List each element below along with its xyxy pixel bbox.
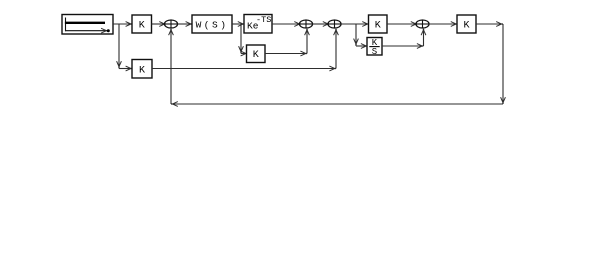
wire K/S to sum S4 [382,29,426,49]
node branch to K2 [117,24,132,71]
svg-text:K: K [139,21,145,32]
transfer function W(S) [192,15,232,33]
summing junction S1 [164,20,177,36]
wire S1 to W(S) [178,22,192,27]
wire W(S) to Ke-TS [232,22,244,27]
gain K5 [247,45,266,63]
wire K2 to sum S3 [152,29,336,71]
integrator K/S [367,38,382,58]
summing junction S4 [416,20,429,29]
delay block Ke^-TS [244,15,272,34]
main feedback wire [171,29,503,107]
svg-text:K: K [463,21,469,32]
wire source to K1 [113,22,132,27]
svg-text:K: K [253,50,259,61]
gain K2 [132,60,152,79]
summing junction S3 [328,20,341,36]
gain K4 [457,15,476,33]
node branch to K/S [354,24,368,48]
wire S3 to K3 [341,22,368,27]
wire K5 to sum S2 [265,29,307,56]
gain K3 [369,15,388,33]
wire K3 to sum S4 [387,22,417,27]
summing junction S2 [299,20,312,36]
svg-text:W(S): W(S) [196,20,229,31]
output wire down [476,22,505,104]
node branch to K5 [239,24,247,56]
source block (step input) [62,15,113,35]
wire S2 to sum S3 [313,22,330,27]
svg-text:-TS: -TS [256,15,271,25]
wire K1 to sum S1 [152,22,166,27]
wire S4 to K4 [429,22,457,27]
svg-text:K: K [139,65,145,76]
svg-text:K: K [375,21,381,32]
gain K1 [132,15,152,33]
svg-text:S: S [372,47,377,57]
wire Ke-TS to sum S2 [272,22,301,27]
